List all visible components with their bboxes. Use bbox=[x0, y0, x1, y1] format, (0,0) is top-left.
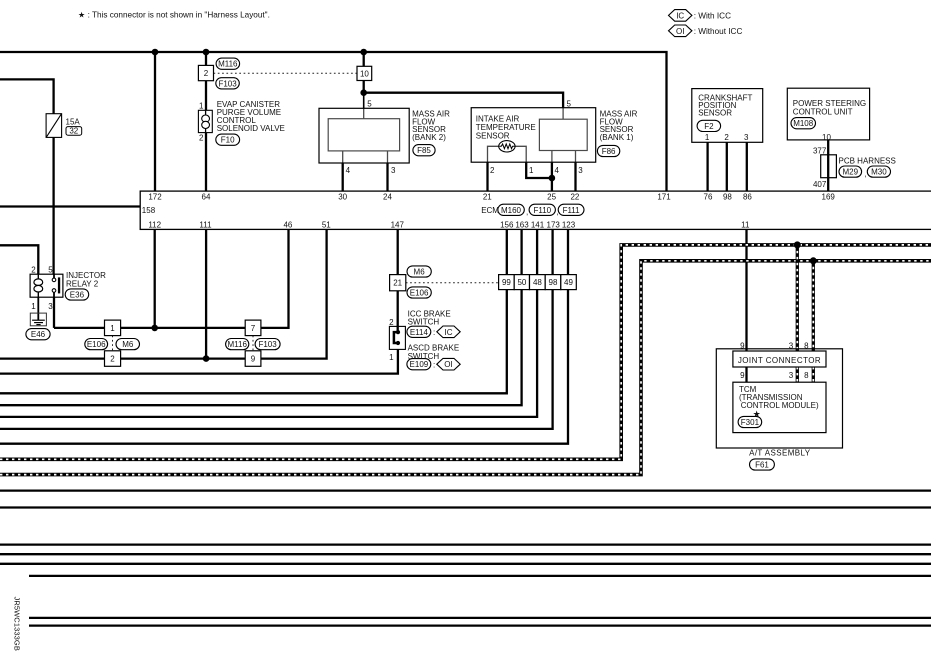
svg-text:E36: E36 bbox=[70, 291, 85, 300]
svg-text:50: 50 bbox=[517, 278, 526, 287]
svg-text:1: 1 bbox=[31, 302, 36, 311]
svg-text:2: 2 bbox=[110, 354, 115, 363]
svg-text:111: 111 bbox=[199, 221, 212, 230]
svg-text:3: 3 bbox=[578, 166, 583, 175]
svg-text:7: 7 bbox=[251, 324, 256, 333]
svg-text:4: 4 bbox=[555, 166, 560, 175]
svg-text:3: 3 bbox=[48, 302, 53, 311]
svg-text:10: 10 bbox=[822, 133, 831, 142]
svg-text:F103: F103 bbox=[258, 340, 277, 349]
svg-text:F61: F61 bbox=[755, 461, 769, 470]
svg-text:377: 377 bbox=[813, 147, 827, 156]
svg-text:1: 1 bbox=[199, 102, 204, 111]
svg-text:M116: M116 bbox=[218, 60, 238, 69]
svg-text:F110: F110 bbox=[533, 206, 551, 215]
svg-text:A/T ASSEMBLY: A/T ASSEMBLY bbox=[749, 448, 811, 457]
svg-text:2: 2 bbox=[204, 69, 209, 78]
svg-text:(BANK 2): (BANK 2) bbox=[412, 133, 446, 142]
svg-text:30: 30 bbox=[338, 193, 347, 202]
svg-text:169: 169 bbox=[822, 193, 836, 202]
svg-text:M6: M6 bbox=[122, 340, 134, 349]
svg-text:8: 8 bbox=[804, 341, 809, 350]
svg-text:E46: E46 bbox=[31, 330, 46, 339]
svg-text:112: 112 bbox=[148, 221, 161, 230]
svg-text:5: 5 bbox=[367, 100, 372, 109]
svg-text:SOLENOID VALVE: SOLENOID VALVE bbox=[217, 124, 285, 133]
svg-text:F86: F86 bbox=[602, 147, 616, 156]
svg-text:: With ICC: : With ICC bbox=[694, 11, 731, 20]
svg-text:E106: E106 bbox=[410, 289, 429, 298]
svg-text:M160: M160 bbox=[501, 206, 522, 215]
svg-text:4: 4 bbox=[346, 166, 351, 175]
svg-text:21: 21 bbox=[393, 279, 402, 288]
svg-text:RELAY 2: RELAY 2 bbox=[66, 280, 99, 289]
svg-text:3: 3 bbox=[744, 133, 749, 142]
svg-text:IC: IC bbox=[676, 11, 684, 20]
svg-text:JR5WC1333GB: JR5WC1333GB bbox=[13, 597, 22, 651]
svg-text:,: , bbox=[557, 208, 559, 217]
svg-text:JOINT CONNECTOR: JOINT CONNECTOR bbox=[738, 356, 821, 365]
svg-text:3: 3 bbox=[789, 341, 794, 350]
svg-text:★: ★ bbox=[753, 409, 761, 419]
svg-text:32: 32 bbox=[69, 126, 78, 135]
svg-text:2: 2 bbox=[490, 166, 495, 175]
svg-text:1: 1 bbox=[529, 166, 534, 175]
svg-text:407: 407 bbox=[813, 180, 827, 189]
svg-text:156: 156 bbox=[500, 221, 514, 230]
svg-text:11: 11 bbox=[741, 221, 750, 230]
svg-text:15A: 15A bbox=[66, 117, 81, 126]
svg-text::: : bbox=[433, 328, 435, 337]
svg-text:64: 64 bbox=[202, 193, 211, 202]
svg-text:21: 21 bbox=[483, 193, 492, 202]
svg-text:1: 1 bbox=[110, 324, 115, 333]
svg-text:22: 22 bbox=[570, 193, 579, 202]
svg-text:3: 3 bbox=[789, 371, 794, 380]
svg-text:147: 147 bbox=[391, 221, 405, 230]
svg-text:F10: F10 bbox=[221, 136, 235, 145]
svg-text:172: 172 bbox=[148, 193, 162, 202]
svg-text:25: 25 bbox=[547, 193, 556, 202]
svg-text:9: 9 bbox=[740, 341, 745, 350]
svg-text:E114: E114 bbox=[410, 328, 429, 337]
svg-text:,: , bbox=[526, 208, 528, 217]
svg-text:86: 86 bbox=[743, 193, 752, 202]
svg-text:M6: M6 bbox=[414, 268, 426, 277]
svg-text:5: 5 bbox=[48, 265, 53, 274]
svg-text:2: 2 bbox=[389, 318, 394, 327]
svg-text:98: 98 bbox=[723, 193, 732, 202]
svg-text:141: 141 bbox=[531, 221, 545, 230]
svg-text:48: 48 bbox=[533, 278, 542, 287]
svg-text:158: 158 bbox=[142, 206, 156, 215]
svg-text:M108: M108 bbox=[793, 119, 814, 128]
svg-text:F2: F2 bbox=[704, 122, 714, 131]
svg-text:SWITCH: SWITCH bbox=[408, 318, 440, 327]
svg-text:M29: M29 bbox=[843, 168, 859, 177]
svg-text:SWITCH: SWITCH bbox=[408, 352, 440, 361]
svg-text:2: 2 bbox=[724, 133, 729, 142]
svg-text:2: 2 bbox=[199, 133, 204, 142]
svg-text:F111: F111 bbox=[563, 206, 581, 215]
svg-text:PCB HARNESS: PCB HARNESS bbox=[839, 157, 896, 166]
svg-text:SENSOR: SENSOR bbox=[698, 109, 732, 118]
svg-text:46: 46 bbox=[283, 221, 292, 230]
svg-text:2: 2 bbox=[31, 265, 36, 274]
svg-text:F85: F85 bbox=[417, 146, 431, 155]
svg-text:51: 51 bbox=[322, 221, 331, 230]
svg-text:10: 10 bbox=[360, 69, 369, 78]
svg-text:49: 49 bbox=[564, 278, 573, 287]
svg-text:E106: E106 bbox=[87, 340, 106, 349]
svg-text:★ : This connector is not show: ★ : This connector is not shown in "Harn… bbox=[78, 11, 270, 20]
svg-text:OI: OI bbox=[676, 27, 684, 36]
svg-text:3: 3 bbox=[391, 166, 396, 175]
svg-text:M30: M30 bbox=[871, 168, 887, 177]
svg-text:F301: F301 bbox=[741, 418, 760, 427]
svg-text:E109: E109 bbox=[410, 360, 429, 369]
svg-text:SENSOR: SENSOR bbox=[476, 132, 510, 141]
svg-text:24: 24 bbox=[383, 193, 392, 202]
svg-text:OI: OI bbox=[444, 360, 452, 369]
svg-text:173: 173 bbox=[547, 221, 561, 230]
svg-text::: : bbox=[433, 361, 435, 370]
svg-text:98: 98 bbox=[549, 278, 558, 287]
svg-text:76: 76 bbox=[704, 193, 713, 202]
svg-text:: Without ICC: : Without ICC bbox=[694, 27, 743, 36]
svg-text:163: 163 bbox=[515, 221, 529, 230]
svg-text:,: , bbox=[864, 170, 866, 179]
svg-text:8: 8 bbox=[804, 371, 809, 380]
svg-text:123: 123 bbox=[562, 221, 576, 230]
svg-text:INJECTOR: INJECTOR bbox=[66, 271, 106, 280]
svg-text:M116: M116 bbox=[227, 340, 247, 349]
svg-text:(BANK 1): (BANK 1) bbox=[600, 133, 634, 142]
svg-text:99: 99 bbox=[502, 278, 511, 287]
svg-text:5: 5 bbox=[567, 100, 572, 109]
svg-text:F103: F103 bbox=[218, 79, 237, 88]
svg-text:CONTROL UNIT: CONTROL UNIT bbox=[793, 107, 853, 116]
svg-text:171: 171 bbox=[657, 193, 671, 202]
svg-text:1: 1 bbox=[705, 133, 710, 142]
svg-text:ECM: ECM bbox=[481, 206, 499, 215]
svg-text:9: 9 bbox=[740, 371, 745, 380]
svg-text:1: 1 bbox=[389, 353, 394, 362]
svg-text:IC: IC bbox=[445, 328, 453, 337]
svg-text:9: 9 bbox=[251, 354, 256, 363]
